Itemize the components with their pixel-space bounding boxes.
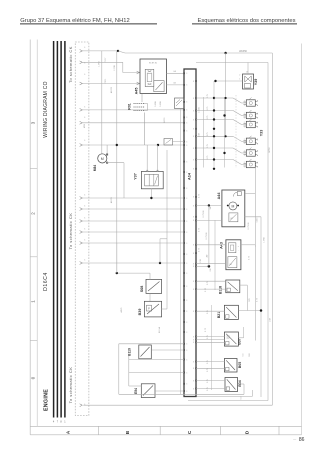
wire label AD350 [110, 86, 113, 93]
pin number tick y405 [84, 404, 85, 406]
svg-text:8: 8 [193, 136, 194, 138]
svg-text:M: M [231, 218, 233, 220]
wire label GN [210, 268, 212, 272]
relay box A45 [140, 59, 167, 93]
svg-text:3: 3 [186, 73, 187, 75]
svg-text:6: 6 [84, 260, 85, 262]
wire bottom rail 396 [196, 390, 252, 396]
svg-text:WA350: WA350 [239, 50, 247, 53]
svg-text:Esquemas elétricos dos compone: Esquemas elétricos dos componentes [198, 18, 296, 24]
wire B119 out to A14 [151, 349, 184, 351]
label A43 [220, 242, 224, 249]
svg-text:3: 3 [186, 85, 187, 87]
wire label WA350 [239, 50, 247, 53]
terminal block on A14 left [175, 98, 185, 109]
pin CK-3 [80, 82, 83, 85]
wire CK row 209 to A14 [82, 208, 184, 210]
svg-text:3: 3 [186, 286, 187, 288]
svg-text:1.5SB: 1.5SB [99, 61, 101, 67]
label Y37 [134, 173, 138, 180]
svg-text:To schematic CK: To schematic CK [68, 46, 73, 83]
pin CK-1 [80, 50, 83, 53]
svg-text:6: 6 [84, 107, 85, 109]
wire jog down-right [118, 51, 125, 53]
svg-text:AD351: AD351 [110, 196, 113, 203]
svg-text:1.5GN: 1.5GN [199, 107, 201, 113]
svg-text:––: –– [293, 437, 297, 441]
wire B119 left leg [118, 344, 120, 395]
page header right title [198, 18, 296, 24]
pin number tick y240.5 [84, 240, 85, 242]
solenoid valve Y33-2 [244, 110, 259, 120]
svg-text:6: 6 [84, 47, 85, 49]
wire top feed from CK to junction [82, 50, 118, 52]
svg-text:B05: B05 [238, 362, 242, 368]
svg-text:1: 1 [244, 155, 245, 157]
motor M84 [98, 154, 107, 163]
svg-text:3: 3 [186, 172, 187, 174]
A14 pin numbers left column [186, 73, 187, 393]
svg-text:3: 3 [186, 311, 187, 313]
svg-text:6: 6 [84, 240, 85, 242]
svg-text:B21: B21 [217, 312, 221, 318]
thick harness line 3 [60, 41, 62, 424]
svg-text:3: 3 [186, 102, 187, 104]
svg-text:A43: A43 [220, 242, 224, 249]
wire A45 out 2 to A14 [167, 82, 185, 85]
svg-text:1: 1 [244, 117, 245, 119]
wire B37 right [238, 327, 243, 338]
wire S68 top [117, 273, 150, 279]
wire Y39 top to rail2 [247, 63, 249, 75]
column number 3 [31, 121, 36, 124]
label B37 [237, 338, 241, 344]
wire CK row 120 to A14 [82, 122, 184, 124]
number band divider 3 [30, 340, 37, 342]
wire label S36 [249, 352, 251, 356]
wire second rail from connector bar to right edge [196, 62, 268, 64]
wire label W350 [269, 147, 271, 153]
solenoid bus line 2 [213, 81, 215, 168]
sensor B05 [224, 359, 237, 373]
wire CK to A45 pin 2 [82, 78, 140, 84]
svg-text:8: 8 [193, 148, 194, 150]
svg-text:8: 8 [193, 253, 194, 255]
svg-text:1.5R: 1.5R [270, 317, 272, 322]
sensor B21 [224, 305, 238, 319]
pin number tick y75 [84, 74, 85, 76]
svg-text:6: 6 [84, 229, 85, 231]
band label D16C4 [43, 272, 49, 291]
svg-text:0.75: 0.75 [207, 144, 209, 148]
svg-text:1.5OR: 1.5OR [114, 65, 116, 71]
grid letter C [187, 430, 192, 434]
svg-text:a: a [257, 101, 258, 103]
svg-text:3: 3 [186, 141, 187, 143]
svg-text:8: 8 [193, 159, 194, 161]
wire M84 lower out [106, 162, 124, 198]
svg-text:ENGINE: ENGINE [43, 389, 49, 411]
svg-text:WIRING DIAGRAM CO: WIRING DIAGRAM CO [43, 81, 49, 137]
wire Y37 pin b up [157, 145, 159, 171]
svg-text:b: b [257, 167, 258, 169]
node bus2 y128.8 [213, 128, 215, 130]
label A14 [186, 172, 191, 180]
svg-text:1: 1 [244, 166, 245, 168]
pin number tick y141 [84, 140, 85, 142]
svg-text:3: 3 [186, 110, 187, 112]
wire A43 right out [241, 245, 255, 341]
wire B119 top rail [119, 343, 184, 345]
wire label 0.75 [199, 193, 201, 198]
pressure switch B39 [144, 301, 161, 317]
svg-text:3: 3 [186, 209, 187, 211]
label B21 [217, 312, 221, 318]
svg-text:8: 8 [193, 205, 194, 207]
svg-text:M84: M84 [93, 165, 97, 172]
pin CK-5 [80, 121, 83, 124]
thick harness line 2 [57, 41, 59, 424]
svg-text:1: 1 [244, 105, 245, 107]
pin CK mid 243 [80, 242, 83, 245]
wire label 0.4 [241, 396, 243, 400]
svg-text:3: 3 [186, 221, 187, 223]
solenoid valve Y33-3 [244, 119, 259, 129]
node bank tap 2 [225, 135, 227, 137]
resistor R01 element 1 [134, 103, 145, 105]
wire B39 right [162, 150, 167, 309]
pin number tick y118 [84, 117, 85, 119]
svg-text:AD350: AD350 [110, 86, 113, 93]
wire label AD35 [120, 307, 123, 313]
node J8 [214, 80, 216, 82]
wire B04 pin2 [196, 388, 225, 390]
wire right inner drop [267, 63, 269, 401]
wire E54 right to A14 [155, 390, 184, 392]
node bus2 y110.5 [213, 109, 215, 111]
node bus2 y98 [213, 97, 215, 99]
label To schematic CK top [68, 46, 73, 83]
svg-text:a: a [257, 163, 258, 165]
wire B37 pin3 [196, 341, 224, 343]
wire B04 right drop [238, 384, 245, 394]
wire A43 pin3 rail [196, 265, 209, 267]
battery sub-box in A43 [229, 243, 240, 253]
label MIDI inside connector [84, 123, 86, 128]
wire B118 pin1 [196, 280, 226, 282]
svg-text:Grupo 37 Esquema elétrico FM,: Grupo 37 Esquema elétrico FM, FH, NH12 [20, 18, 130, 24]
wire label AD [206, 254, 209, 257]
svg-text:8: 8 [193, 217, 194, 219]
label A44 [217, 192, 221, 200]
pin CK mid 209 [80, 208, 83, 211]
node J1 [117, 50, 119, 52]
svg-text:2: 2 [244, 162, 245, 164]
svg-text:2: 2 [244, 122, 245, 124]
svg-text:3: 3 [186, 372, 187, 374]
svg-text:M: M [101, 157, 104, 161]
label B04 [238, 380, 242, 386]
thick harness line 1 [53, 41, 55, 424]
wire label 1.5R [199, 132, 201, 137]
A14 right pin pads [195, 80, 197, 389]
wire long vertical x117 [116, 51, 118, 273]
svg-text:6: 6 [84, 63, 85, 65]
svg-text:3: 3 [186, 232, 187, 234]
pin CK mid 198 [80, 197, 83, 200]
band label WIRING DIAGRAM CO [43, 81, 49, 137]
svg-text:B37: B37 [237, 338, 241, 344]
svg-text:3: 3 [186, 123, 187, 125]
solenoid valve Y37 [141, 171, 163, 188]
svg-text:b: b [257, 127, 258, 129]
label R01 [127, 103, 131, 109]
svg-text:6: 6 [84, 117, 85, 119]
svg-text:3: 3 [186, 344, 187, 346]
svg-text:3: 3 [186, 117, 187, 119]
svg-text:8: 8 [193, 388, 194, 390]
svg-text:3: 3 [186, 350, 187, 352]
page header right rule [192, 23, 297, 25]
svg-text:Y39: Y39 [254, 79, 258, 86]
solenoid bus line 1 [203, 97, 205, 168]
page header left title [20, 18, 130, 24]
wire B05 pin2 [196, 367, 224, 369]
band label ENGINE [43, 389, 49, 411]
column number 2 [31, 212, 36, 215]
wire bottom rail 394 [119, 393, 244, 395]
wire label 1.5 SB [99, 61, 101, 67]
svg-text:0.75: 0.75 [207, 132, 209, 136]
svg-text:b: b [257, 143, 258, 145]
wire Y37 pin a up [146, 145, 148, 171]
svg-text:A44: A44 [217, 192, 221, 200]
svg-text:R01: R01 [127, 103, 131, 109]
wire A45 to R01 [142, 93, 145, 145]
svg-text:1: 1 [239, 79, 240, 81]
svg-text:8: 8 [193, 342, 194, 344]
svg-text:8: 8 [193, 98, 194, 100]
pin CK mid 221 [80, 220, 83, 223]
wire right edge drop [271, 53, 273, 405]
label B39 [138, 309, 142, 316]
wire B118 right [240, 217, 261, 397]
svg-text:2: 2 [244, 113, 245, 115]
wire solenoid feed 1 [196, 94, 246, 103]
control unit A43 [226, 240, 241, 270]
svg-text:To schematic CK: To schematic CK [68, 367, 73, 404]
sensor B04 [225, 378, 238, 392]
svg-text:B04: B04 [238, 380, 242, 386]
label To schematic CK middle [68, 213, 73, 250]
outer frame bottom edge [30, 434, 301, 436]
wire label 1.5GN [199, 107, 201, 113]
pin CK-6 [80, 144, 83, 147]
svg-text:3: 3 [186, 254, 187, 256]
svg-text:3: 3 [186, 145, 187, 147]
wire A43 pin2 to A14 [196, 263, 226, 265]
outer frame right edge [301, 44, 303, 435]
label B05 [238, 362, 242, 368]
diode block D1 [164, 139, 184, 146]
svg-text:8: 8 [193, 336, 194, 338]
wire S68 to B39 [149, 293, 151, 301]
node J7 [116, 272, 118, 274]
svg-text:B119A: B119A [158, 326, 161, 333]
svg-text:3: 3 [186, 198, 187, 200]
svg-text:1.5SB: 1.5SB [264, 237, 266, 243]
pin number tick y195.5 [84, 195, 85, 197]
wire solenoid feed 5 [196, 144, 246, 153]
svg-text:To schematic CK: To schematic CK [68, 213, 73, 250]
wire B118 pin2 [196, 288, 226, 290]
svg-text:8: 8 [193, 129, 194, 131]
number band divider 1 [30, 168, 37, 170]
sensor B118 [226, 280, 240, 293]
node bus2 y119.5 [213, 118, 215, 120]
svg-text:3: 3 [186, 188, 187, 190]
wire A43 pin1 to A14 [196, 244, 226, 246]
svg-text:3: 3 [186, 243, 187, 245]
node bus riser from J2 [225, 53, 227, 136]
svg-text:85 87 30: 85 87 30 [149, 62, 158, 64]
resistor R01 element 3 [134, 101, 162, 111]
svg-text:B119: B119 [128, 348, 132, 356]
svg-text:8: 8 [193, 220, 194, 222]
wire CK row 145 to A14 [82, 144, 184, 146]
svg-text:0.75: 0.75 [207, 360, 209, 364]
solenoid valve Y33-6 [244, 159, 259, 169]
svg-text:3: 3 [186, 300, 187, 302]
grid letter row divider 4 [278, 426, 280, 435]
wire M84 to row 145 [106, 145, 108, 156]
svg-text:1: 1 [244, 143, 245, 145]
solenoid bus line 3 [224, 97, 226, 168]
wire A45 out 1 to A14 [167, 70, 185, 74]
sensor B119 [139, 345, 152, 359]
label M84 [93, 165, 97, 172]
wire label AD351 [110, 196, 113, 203]
label B119 [128, 348, 132, 356]
svg-text:3: 3 [186, 359, 187, 361]
connector bar A14 [184, 69, 196, 397]
sensor B37 [224, 332, 238, 346]
pin CK-2 [80, 61, 83, 64]
grid letter D [245, 430, 250, 434]
svg-text:B39: B39 [138, 309, 142, 316]
svg-text:0.75: 0.75 [207, 107, 209, 111]
wire B21 pin1 [196, 310, 224, 312]
wire label 1.5SB [264, 237, 266, 243]
contact sub-box in A43 [228, 257, 237, 268]
wire label SB [210, 206, 212, 209]
wire label 0.75GN [248, 222, 250, 229]
switch S68 [146, 279, 162, 293]
wire A44 pin1 to A14 [196, 205, 222, 207]
wire B37 pin2 [196, 339, 224, 341]
wire label C440 [257, 217, 259, 223]
pin A45:2 [137, 82, 140, 85]
svg-text:1.5R: 1.5R [199, 132, 201, 137]
svg-text:6: 6 [84, 206, 85, 208]
svg-text:8: 8 [193, 281, 194, 283]
svg-text:a: a [257, 123, 258, 125]
wire label 0.4 [243, 353, 245, 357]
wire vertical x180 [180, 109, 182, 394]
wire J9-J10 riser [209, 206, 215, 291]
svg-text:0.75: 0.75 [207, 116, 209, 120]
wire A44 right out [245, 216, 261, 218]
connector dashed box (To schematic CK) [75, 42, 89, 416]
label To schematic CK bottom [68, 367, 73, 404]
wire label S35 [249, 297, 251, 301]
svg-text:a: a [257, 114, 258, 116]
grid letter row divider 2 [159, 426, 161, 435]
thick harness line 4 [64, 41, 66, 424]
grid letter A [66, 430, 71, 434]
pin CK-4 [80, 109, 83, 112]
svg-text:M: M [230, 264, 232, 266]
svg-text:b: b [257, 105, 258, 107]
label S68 [140, 286, 144, 293]
node bus1 top [214, 97, 226, 99]
svg-text:0.75: 0.75 [207, 387, 209, 391]
node J11 [260, 309, 263, 312]
wire Y37 down to row 198 [150, 189, 152, 198]
pin number tick y218.5 [84, 218, 85, 220]
wire B21 right [238, 310, 261, 312]
wire label 1.5R [200, 258, 202, 263]
label Y39 [254, 79, 258, 86]
svg-text:86: 86 [299, 437, 305, 443]
label E54 [134, 388, 138, 394]
label A45 [134, 88, 138, 95]
label Y33 [260, 130, 264, 137]
wire label 0.75 [199, 247, 201, 252]
node bank tap 1 [225, 97, 227, 99]
control unit A44 [222, 190, 245, 227]
wire label 1.5 OR [114, 65, 116, 71]
wire B119 bottom rail [129, 355, 184, 373]
wire A44 top right [246, 168, 256, 248]
wire solenoid feed 3 [196, 116, 246, 125]
wire E54 left [129, 373, 142, 387]
solenoid valve Y33-4 [244, 136, 259, 146]
svg-text:8: 8 [193, 119, 194, 121]
wire CK row 109 to A14 [82, 109, 184, 111]
wire label 0.75 [199, 227, 201, 232]
sub-box in A44 [229, 213, 238, 222]
svg-text:0.75: 0.75 [207, 368, 209, 372]
resistor R01 element 2 [134, 106, 145, 108]
svg-text:a: a [257, 140, 258, 142]
wire solenoid feed 4 [196, 132, 246, 141]
svg-text:8: 8 [193, 368, 194, 370]
wire label B119A [158, 326, 161, 333]
number band inner rule [36, 40, 38, 427]
svg-text:2: 2 [239, 75, 240, 77]
svg-text:3: 3 [186, 384, 187, 386]
Y33 dashed grouping line [235, 95, 237, 168]
wire CK row 263 to A14 [82, 262, 184, 264]
solenoid valve Y33-5 [244, 148, 259, 158]
A14 pin numbers right column [193, 81, 194, 391]
pin number tick y206.5 [84, 206, 85, 208]
label B118 [218, 286, 222, 294]
A14 left pin pads [183, 72, 185, 392]
svg-text:3: 3 [186, 161, 187, 163]
svg-text:D16C4: D16C4 [43, 272, 49, 291]
